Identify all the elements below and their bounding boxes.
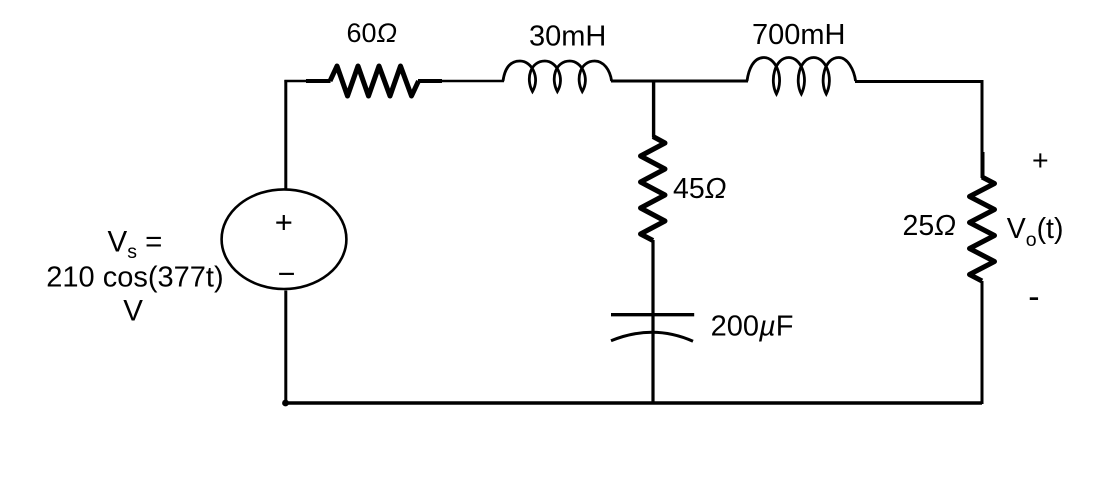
svg-text:30mH: 30mH bbox=[529, 20, 606, 52]
wire top rail segment B (resistor to inductor L1) bbox=[442, 80, 504, 83]
wire right vertical overlap stub bbox=[981, 152, 984, 177]
wire right vertical lower (resistor R3 to bottom rail) bbox=[981, 281, 984, 404]
svg-text:45Ω: 45Ω bbox=[673, 173, 726, 205]
resistor R2 45ohm bbox=[641, 137, 666, 241]
wire bottom rail bbox=[284, 401, 983, 405]
wire middle branch lower (resistor R2 to capacitor and bottom rail) bbox=[651, 240, 654, 403]
node A junction to inductor L2 bbox=[654, 80, 748, 83]
wire right vertical upper (top rail to resistor R3) bbox=[981, 80, 984, 178]
wire top rail segment A (left corner to resistor) bbox=[284, 80, 307, 83]
wire left vertical top (source to top rail) bbox=[284, 80, 287, 190]
svg-text:25Ω: 25Ω bbox=[903, 210, 956, 242]
svg-text:+: + bbox=[1032, 145, 1049, 177]
svg-text:210 cos(377t): 210 cos(377t) bbox=[46, 261, 223, 293]
voltage source VS bbox=[222, 189, 347, 289]
inductor L1 30mH bbox=[503, 61, 612, 92]
svg-text:200µF: 200µF bbox=[711, 311, 794, 343]
svg-text:-: - bbox=[1028, 278, 1039, 316]
svg-text:60Ω: 60Ω bbox=[347, 18, 398, 48]
wire top rail segment C (inductor L1 to node A) bbox=[611, 80, 654, 83]
svg-text:700mH: 700mH bbox=[752, 19, 846, 51]
svg-text:−: − bbox=[278, 257, 296, 291]
wire top rail segment D (inductor L2 to right corner) bbox=[855, 80, 983, 83]
junction dot bottom left bbox=[282, 400, 289, 407]
svg-text:Vo(t): Vo(t) bbox=[1007, 213, 1064, 251]
wire left vertical bottom (source to bottom rail) bbox=[284, 291, 287, 404]
svg-text:Vs =: Vs = bbox=[108, 226, 163, 264]
svg-text:+: + bbox=[275, 204, 293, 239]
resistor R 60ohm left lead bbox=[306, 79, 331, 83]
resistor R 60ohm right lead bbox=[418, 79, 442, 83]
svg-text:V: V bbox=[123, 295, 143, 328]
resistor R3 25ohm bbox=[970, 177, 995, 281]
capacitor C1 top plate bbox=[611, 313, 694, 316]
resistor R 60ohm bbox=[330, 66, 419, 96]
wire middle branch upper (node A down to resistor R2) bbox=[652, 80, 655, 138]
capacitor C1 bottom plate (curved) bbox=[611, 332, 693, 341]
inductor L2 700mH bbox=[747, 58, 856, 95]
